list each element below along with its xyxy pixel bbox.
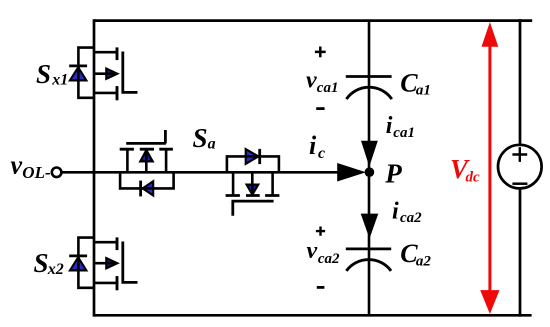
- svg-text:ca1: ca1: [317, 80, 339, 96]
- capacitor Ca2: [346, 249, 391, 271]
- gate Sa right: [232, 201, 274, 216]
- diode loop Sx1: [78, 48, 94, 98]
- label i_ca1: [386, 113, 415, 141]
- wire bottom frame: [94, 314, 532, 317]
- wire top frame: [94, 19, 532, 22]
- svg-text:a: a: [208, 136, 216, 153]
- source bar Sx1: [116, 86, 119, 100]
- wire right frame upper: [519, 19, 522, 146]
- svg-text:x1: x1: [51, 72, 68, 89]
- svg-text:a1: a1: [416, 83, 431, 99]
- body arrow Sa right: [247, 185, 259, 195]
- svg-text:i: i: [392, 199, 399, 225]
- diode bar Sx2: [69, 254, 87, 257]
- svg-text:ca1: ca1: [393, 125, 415, 141]
- label Vdc: [450, 154, 480, 185]
- svg-text:v: v: [306, 68, 317, 94]
- drain stub Sx2: [94, 241, 117, 244]
- minus sign bottom: [317, 286, 325, 289]
- label Ca1: [400, 68, 431, 98]
- svg-text:ca2: ca2: [318, 251, 340, 267]
- svg-text:i: i: [309, 131, 317, 160]
- diode triangle Sx2: [70, 257, 87, 270]
- arrow i_ca2 head: [361, 214, 379, 239]
- diode loop Sx2: [78, 238, 94, 288]
- gate Sx2: [123, 242, 138, 283]
- svg-text:v: v: [307, 238, 318, 264]
- plus sign bottom: [316, 227, 325, 236]
- label Ca2: [400, 239, 431, 269]
- voltage source V: [498, 145, 542, 189]
- diode loop Sa right: [227, 156, 279, 172]
- svg-text:x2: x2: [47, 261, 64, 278]
- node P dot: [365, 167, 375, 177]
- diode bar Sa right: [258, 149, 261, 164]
- left stub Sa right: [232, 172, 235, 195]
- diode triangle Sa left: [143, 181, 154, 195]
- svg-text:S: S: [193, 123, 208, 153]
- arrow i_c head: [337, 163, 366, 182]
- wire left bus: [93, 19, 96, 316]
- arrow i_ca1 head: [361, 141, 378, 167]
- source bar Sx2: [116, 276, 119, 290]
- channel bars Sa right: [226, 194, 280, 197]
- mosfet Sa right: [226, 149, 280, 216]
- body arrow Sx1: [106, 69, 117, 79]
- left stub Sa left: [126, 149, 129, 172]
- right stub Sa left: [165, 149, 168, 172]
- wire main horizontal (vOL- to node P): [62, 171, 339, 174]
- label v_ca1: [306, 68, 338, 96]
- diode loop Sa left: [120, 172, 174, 188]
- right stub Sa right: [271, 172, 274, 195]
- label Sa: [193, 123, 216, 153]
- svg-text:P: P: [384, 159, 402, 189]
- diode triangle Sx1: [70, 67, 87, 80]
- label i_ca2: [392, 199, 422, 226]
- capacitor Ca1: [346, 77, 392, 100]
- drain stub Sx1: [94, 51, 117, 54]
- wire right frame lower: [519, 188, 522, 317]
- drain bar Sx1: [116, 47, 119, 60]
- label Sx1: [36, 59, 68, 89]
- drain bar Sx2: [116, 237, 119, 250]
- svg-text:c: c: [318, 145, 325, 162]
- diode triangle Sa right: [246, 149, 259, 164]
- svg-text:S: S: [36, 59, 51, 89]
- body arrow Sa left: [140, 150, 152, 161]
- wire capacitor branch: [368, 21, 371, 316]
- body arrow Sx2: [106, 258, 117, 268]
- terminal vOL- circle: [52, 168, 62, 178]
- svg-text:ca2: ca2: [400, 210, 422, 226]
- svg-text:OL-: OL-: [22, 163, 51, 182]
- svg-text:a2: a2: [416, 254, 432, 270]
- source stub Sx1: [94, 92, 117, 95]
- gate Sa left: [126, 130, 166, 143]
- minus sign top: [316, 107, 324, 110]
- svg-text:S: S: [34, 248, 49, 278]
- label vOL-: [11, 150, 51, 182]
- label v_ca2: [307, 238, 341, 267]
- arrow Vdc red double-headed: [480, 22, 499, 314]
- label i_c: [309, 131, 325, 162]
- source stub Sx2: [94, 282, 117, 285]
- plus sign top: [315, 47, 326, 58]
- svg-text:i: i: [386, 113, 393, 139]
- channel bars Sa left: [120, 148, 173, 151]
- diode bar Sa left: [139, 181, 142, 197]
- svg-text:dc: dc: [466, 169, 481, 185]
- label Sx2: [34, 248, 64, 278]
- mosfet Sa left: [120, 130, 174, 196]
- svg-text:v: v: [11, 150, 23, 179]
- mosfet Sx2: [69, 237, 137, 290]
- diode bar Sx1: [69, 65, 87, 68]
- mosfet Sx1: [69, 47, 137, 100]
- gate Sx1: [123, 52, 138, 93]
